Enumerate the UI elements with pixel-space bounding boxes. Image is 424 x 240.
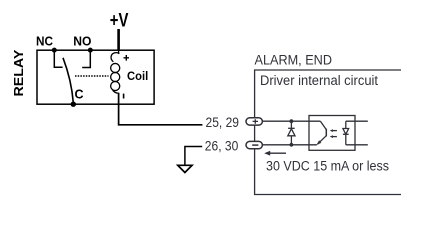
svg-text:26, 30: 26, 30 (205, 139, 239, 154)
svg-text:Coil: Coil (127, 71, 148, 83)
svg-text:NO: NO (73, 34, 91, 48)
svg-text:25, 29: 25, 29 (206, 115, 240, 130)
svg-text:C: C (75, 88, 84, 102)
svg-text:NC: NC (36, 34, 53, 48)
svg-text:30 VDC 15 mA or less: 30 VDC 15 mA or less (266, 159, 389, 174)
svg-text:+V: +V (110, 10, 129, 32)
svg-text:RELAY: RELAY (11, 49, 26, 96)
svg-text:Driver internal circuit: Driver internal circuit (260, 73, 378, 88)
svg-text:ALARM, END: ALARM, END (255, 52, 333, 67)
